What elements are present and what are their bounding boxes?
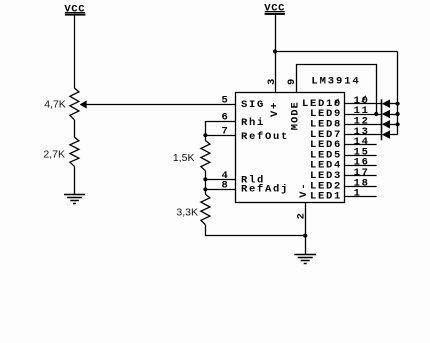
wire 1,5K to 3,3K <box>205 171 207 194</box>
wire LED D4 anode to rail <box>390 134 398 136</box>
junction pin 4 <box>203 177 207 181</box>
LED D3 triangle (row pin 12) <box>382 120 390 128</box>
junction VCC branch <box>273 49 277 53</box>
wire pin 15 stub <box>345 155 377 157</box>
wire pin 14 stub <box>345 144 377 146</box>
svg-text:7: 7 <box>222 125 230 137</box>
svg-text:1: 1 <box>354 188 362 200</box>
resistor 2,7K <box>70 137 79 166</box>
ground (under pin 2) <box>294 254 316 256</box>
junction anode rail row 12 <box>396 122 400 126</box>
junction pin 7 / resistor top <box>203 133 207 137</box>
svg-text:5: 5 <box>222 95 230 107</box>
junction pin 2 / 3,3K return <box>303 234 307 238</box>
svg-text:V+: V+ <box>269 101 281 117</box>
wire pin 1 stub <box>345 196 377 198</box>
svg-text:6: 6 <box>222 111 230 123</box>
svg-text:LED1: LED1 <box>310 191 342 203</box>
svg-text:LM3914: LM3914 <box>311 75 360 87</box>
LED D1 triangle (row pin 10) <box>382 100 390 108</box>
wire pin 12 to LED cathode <box>345 124 382 126</box>
wire LED D2 anode to rail <box>390 114 398 116</box>
svg-text:RefAdj: RefAdj <box>241 184 289 196</box>
wire pin 18 stub <box>345 186 377 188</box>
junction anode rail row 11 <box>396 112 400 116</box>
svg-text:1,5K: 1,5K <box>173 152 195 164</box>
wire pin 4 Rld <box>205 179 235 181</box>
svg-text:Rhi: Rhi <box>241 117 265 129</box>
svg-text:3,3K: 3,3K <box>176 207 198 219</box>
svg-text:2: 2 <box>295 211 307 219</box>
wire pin 8 RefAdj <box>205 189 235 191</box>
wire VCC to potentiometer top <box>74 16 76 88</box>
wire LED D3 anode to rail <box>390 124 398 126</box>
wire wiper to pin 5 SIG <box>86 104 235 106</box>
potentiometer 4,7K (resistor body) <box>70 88 79 120</box>
svg-text:2,7K: 2,7K <box>43 148 65 160</box>
svg-text:4,7K: 4,7K <box>44 98 66 110</box>
resistor 1,5K <box>201 141 210 171</box>
wire anode rail down right side <box>397 52 399 135</box>
junction anode rail row 10 <box>396 102 400 106</box>
svg-text:SIG: SIG <box>241 99 265 111</box>
resistor 3,3K <box>201 194 210 224</box>
svg-text:V-: V- <box>298 182 310 198</box>
wire pin 13 to LED cathode <box>345 134 382 136</box>
wire VCC branch to LED anode rail <box>275 51 398 53</box>
LED D4 triangle (row pin 13) <box>382 131 390 139</box>
svg-text:RefOut: RefOut <box>241 131 289 143</box>
wire pin 6 Rhi <box>205 121 235 123</box>
wire pin 16 stub <box>345 165 377 167</box>
wire pin 17 stub <box>345 175 377 177</box>
op-amp/IC U1 LM3914 body <box>236 93 345 203</box>
wire VCC to pin 3 V+ <box>275 15 277 93</box>
junction pin 8 <box>203 187 207 191</box>
svg-text:9: 9 <box>286 77 298 85</box>
potentiometer wiper arrow <box>80 101 86 108</box>
svg-text:3: 3 <box>266 77 278 85</box>
wire 2,7K to ground <box>74 166 76 194</box>
wire potentiometer to resistor 2,7K <box>74 120 76 137</box>
svg-text:8: 8 <box>222 180 230 192</box>
wire pin 10 to LED cathode <box>345 103 382 105</box>
ground (left, under 2,7K) <box>64 194 85 196</box>
wire pin 9 MODE to pin 11 line <box>297 65 377 115</box>
wire pin 7 RefOut <box>205 135 235 137</box>
junction MODE wire on LED9 line <box>374 112 378 116</box>
wire pin6 down to junction <box>205 121 207 141</box>
LED cathode bar (4 stacked LEDs) <box>381 99 383 140</box>
wire pin 2 V- to ground <box>305 202 307 254</box>
LED D2 triangle (row pin 11) <box>382 110 390 118</box>
wire pin 11 to LED cathode <box>345 114 382 116</box>
slashed zero marks <box>335 99 339 105</box>
svg-text:MODE: MODE <box>289 101 301 130</box>
wire 3,3K bottom to pin 2 node <box>206 225 306 236</box>
wire LED D1 anode to rail <box>390 103 398 105</box>
